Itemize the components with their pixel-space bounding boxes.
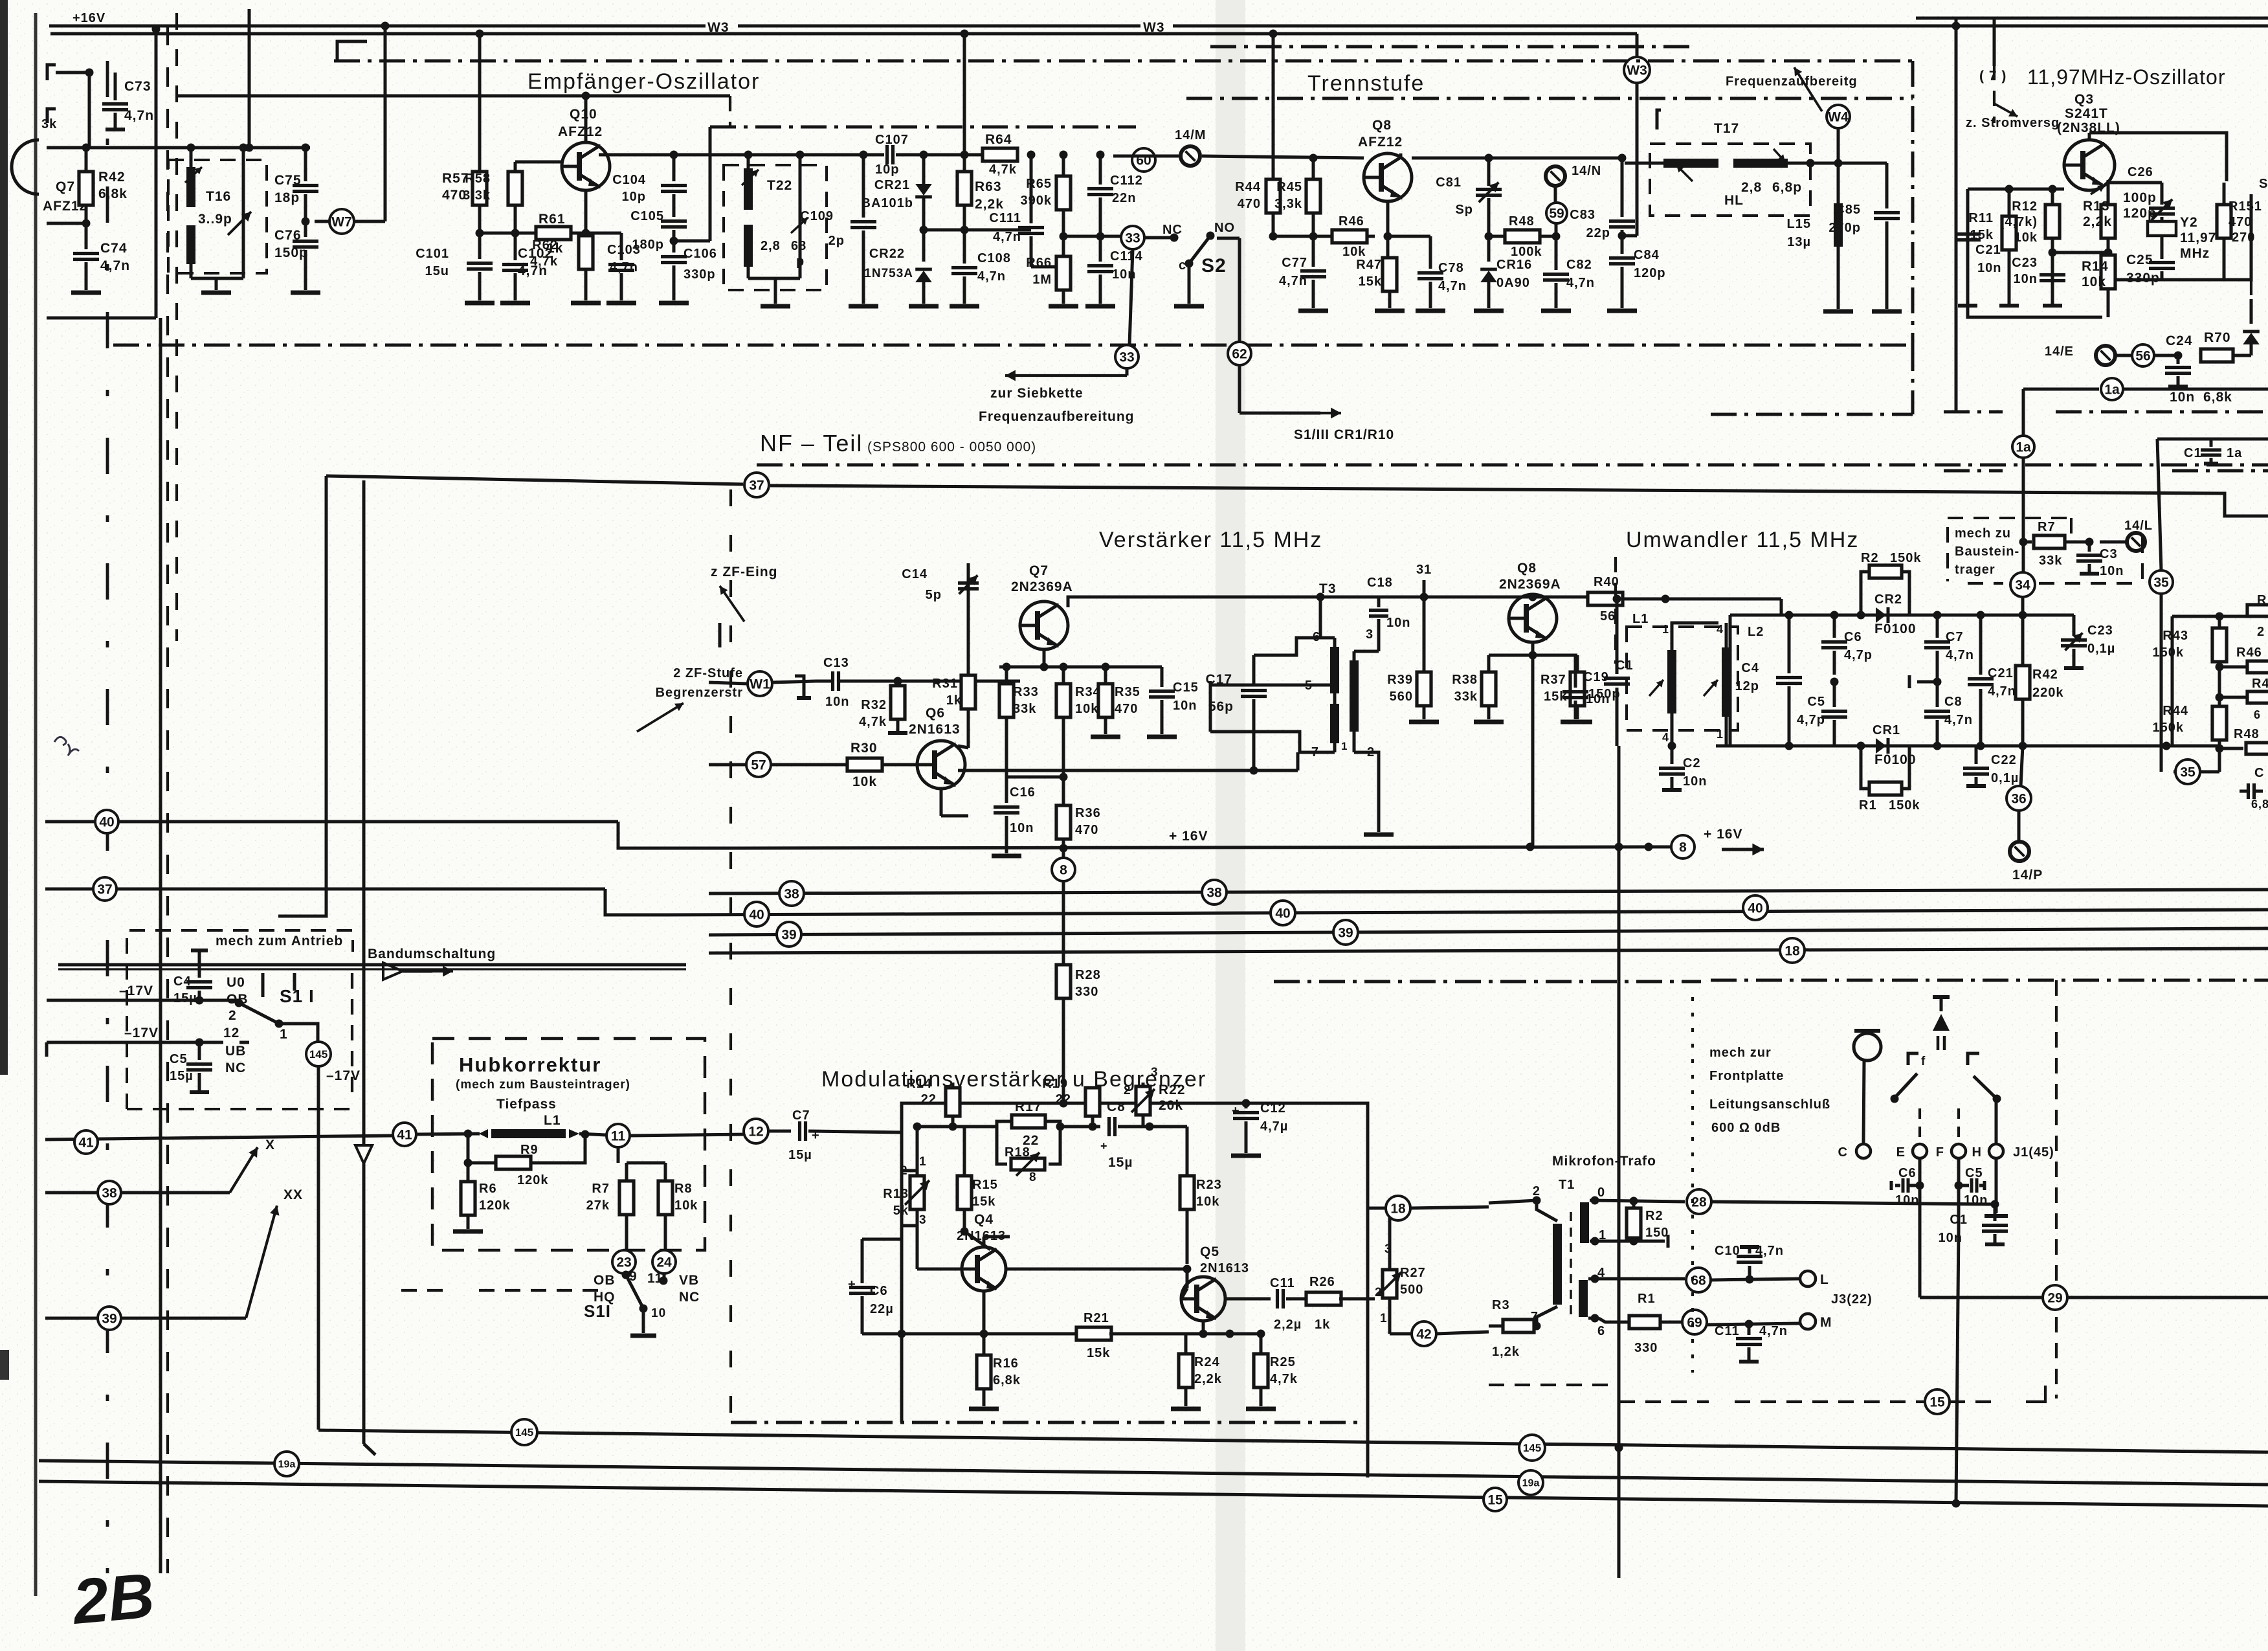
svg-text:12p: 12p [1735, 679, 1759, 693]
wire bus37 left [45, 888, 605, 891]
resistor R1u loop [1861, 746, 1869, 789]
wire T17 hook [1657, 110, 1661, 129]
arrow zf-eing [720, 586, 744, 622]
svg-text:C16: C16 [1010, 785, 1036, 800]
trim arrow T16 top [185, 167, 202, 183]
svg-text:1k: 1k [1315, 1318, 1330, 1332]
svg-text:C26: C26 [2128, 165, 2153, 179]
capacitor C5u [1833, 682, 1836, 707]
node 19a right [1518, 1470, 1543, 1495]
svg-text:2: 2 [2257, 625, 2265, 639]
resistor R11 [2008, 189, 2011, 216]
capacitor C12 [1245, 1103, 1248, 1108]
node 37 left [93, 877, 117, 901]
resistor R45 [1312, 158, 1315, 180]
svg-text:R65: R65 [1026, 177, 1052, 191]
svg-text:22p: 22p [1586, 226, 1610, 240]
svg-text:10p: 10p [622, 190, 646, 204]
capacitor C81 trimmer [1487, 158, 1491, 186]
svg-text:C76: C76 [274, 228, 302, 243]
svg-text:–17V: –17V [326, 1068, 361, 1083]
junction [1830, 678, 1839, 686]
svg-text:35: 35 [2153, 575, 2169, 590]
resistor R33 [1005, 667, 1008, 684]
svg-text:2N1613: 2N1613 [909, 722, 961, 737]
svg-text:R18: R18 [1005, 1145, 1030, 1160]
svg-text:R32: R32 [861, 698, 887, 712]
svg-text:R47: R47 [1356, 258, 1382, 272]
svg-text:4,7n: 4,7n [100, 258, 130, 273]
inductor T17 winding right [1733, 159, 1788, 168]
svg-text:R151: R151 [2229, 199, 2262, 214]
svg-text:1: 1 [919, 1155, 927, 1169]
wire H drop [1995, 1099, 1998, 1144]
svg-text:1a: 1a [2227, 446, 2242, 460]
wire T16 right lead [242, 148, 245, 278]
svg-text:6: 6 [2254, 708, 2261, 721]
resistor R62 vert [584, 190, 588, 233]
capacitor C6f [1890, 1181, 1893, 1190]
svg-text:18: 18 [1784, 943, 1800, 958]
svg-text:18p: 18p [274, 190, 300, 205]
svg-text:10k: 10k [674, 1198, 698, 1213]
wire C17 top [1254, 638, 1335, 655]
wire C6-Q4 link [862, 1332, 984, 1336]
resistor R19 [1091, 1088, 1095, 1103]
svg-text:S1I: S1I [584, 1301, 611, 1321]
wire Q4 collector [983, 1237, 986, 1247]
svg-text:41: 41 [78, 1135, 94, 1150]
resistor R44t [1266, 179, 1280, 213]
svg-text:2N2369A: 2N2369A [1499, 577, 1561, 592]
wire 28 out [1711, 1202, 1995, 1204]
wire 1a row [2023, 388, 2099, 391]
svg-text:10n: 10n [2170, 390, 2195, 405]
svg-text:145: 145 [1523, 1442, 1541, 1454]
svg-text:1: 1 [280, 1027, 288, 1042]
trim arrow T22 top [742, 170, 759, 185]
svg-text:L: L [1820, 1272, 1829, 1287]
wire R7R8 bracket [617, 1147, 620, 1163]
svg-text:470: 470 [1115, 702, 1138, 716]
diode CR16 [1487, 236, 1491, 262]
speaker symbol [1933, 995, 1950, 999]
wire C14 vertical [967, 563, 970, 675]
svg-text:R2: R2 [1645, 1209, 1663, 1223]
svg-text:C15: C15 [1173, 680, 1199, 695]
node W4 [1827, 105, 1850, 128]
svg-text:C8: C8 [1944, 695, 1962, 709]
svg-text:33k: 33k [1454, 690, 1478, 704]
svg-text:R28: R28 [1075, 968, 1101, 982]
wire R46 row [1273, 235, 1375, 238]
svg-text:Frequenzaufbereitg: Frequenzaufbereitg [1726, 74, 1858, 89]
capacitor C3 [2088, 542, 2091, 552]
svg-text:R7: R7 [2038, 520, 2056, 534]
node 68 [1686, 1268, 1711, 1292]
svg-text:R13: R13 [883, 1187, 909, 1201]
junction [670, 151, 678, 159]
svg-text:Tiefpass: Tiefpass [496, 1097, 557, 1112]
svg-text:VB: VB [679, 1273, 699, 1288]
svg-text:C74: C74 [100, 241, 128, 256]
svg-text:R14: R14 [906, 1077, 932, 1091]
svg-text:C10: C10 [1715, 1244, 1740, 1258]
resistor R57 [478, 34, 482, 172]
svg-text:22µ: 22µ [870, 1302, 894, 1316]
svg-text:4,7n: 4,7n [1944, 713, 1973, 727]
wire T1 in top [1489, 1200, 1537, 1203]
node 60 [1132, 148, 1155, 172]
wire Q7 row [47, 146, 310, 150]
connector L out [1800, 1271, 1816, 1286]
capacitor C11m [1748, 1324, 1751, 1335]
wire C105 tap [674, 240, 710, 243]
wire Q8 emitter long [1531, 642, 1535, 846]
resistor R13 [2107, 192, 2110, 205]
svg-text:470: 470 [1238, 197, 1261, 211]
resistor R7k [2023, 541, 2032, 544]
box mech zu Bausteintraeger [1948, 518, 2071, 581]
wire mod row1 [917, 1125, 997, 1129]
svg-text:2,8: 2,8 [1741, 180, 1762, 195]
svg-text:C82: C82 [1566, 258, 1592, 272]
wire umw top rail [1780, 599, 1783, 615]
svg-text:R61: R61 [539, 212, 566, 227]
svg-text:23: 23 [616, 1255, 631, 1270]
wire 69 out [1707, 1323, 1799, 1325]
resistor R35 [1104, 667, 1107, 684]
svg-text:R26: R26 [1309, 1275, 1335, 1289]
wire 62 down [1238, 366, 1241, 413]
resistor R61 [536, 227, 571, 240]
svg-text:R48: R48 [2234, 727, 2260, 741]
svg-text:C109: C109 [800, 209, 834, 223]
svg-text:C73: C73 [124, 79, 151, 94]
capacitor C114 [1099, 236, 1102, 262]
svg-text:Hubkorrektur: Hubkorrektur [459, 1053, 601, 1076]
arrow stromversg [1994, 104, 2018, 117]
svg-text:100k: 100k [1511, 245, 1542, 259]
svg-text:C104: C104 [612, 173, 646, 187]
wire pin6 row [1588, 1317, 1599, 1320]
svg-text:100p: 100p [2123, 190, 2157, 205]
node 62 [1228, 342, 1251, 365]
svg-text:15µ: 15µ [788, 1148, 812, 1162]
inductor T3 winding upper [1330, 647, 1339, 693]
wire Q8 emitter [1386, 201, 1390, 260]
wire S2 pole [1188, 264, 1191, 304]
svg-text:15k: 15k [1970, 228, 1994, 242]
svg-text:35: 35 [2180, 765, 2196, 780]
svg-text:8: 8 [1679, 840, 1687, 855]
resistor R46 stub [2219, 666, 2246, 669]
transistor Q5 [1181, 1277, 1225, 1321]
wire W4 vertical [1837, 128, 1840, 163]
inductor T22 winding lower [744, 225, 753, 267]
wire C111 join [1031, 265, 1063, 269]
svg-text:L1: L1 [1632, 612, 1649, 626]
svg-text:1: 1 [1380, 1312, 1388, 1325]
border left dashed vertical 2 [166, 26, 169, 1573]
svg-text:Empfänger-Oszillator: Empfänger-Oszillator [528, 69, 760, 94]
transistor Q3 [2064, 140, 2115, 190]
box mech zum Antrieb [127, 930, 353, 1109]
svg-text:12: 12 [223, 1026, 239, 1040]
junction [949, 1099, 957, 1108]
svg-text:390k: 390k [1021, 194, 1052, 208]
svg-text:C5: C5 [170, 1052, 188, 1066]
capacitor C4s [198, 950, 201, 978]
svg-text:1a: 1a [2104, 382, 2120, 397]
svg-text:38: 38 [1206, 885, 1222, 900]
capacitor C76 [304, 221, 307, 237]
arrow freq [1794, 67, 1822, 111]
svg-text:C101: C101 [416, 247, 449, 261]
svg-text:C114: C114 [1110, 249, 1143, 264]
svg-text:R14: R14 [2082, 259, 2109, 274]
wire R61 row [480, 232, 586, 235]
pot R22 [1142, 1083, 1145, 1085]
wire 1a vertical [2022, 389, 2025, 435]
node 41 mid [393, 1123, 416, 1146]
junction [1485, 232, 1493, 241]
svg-text:11,97MHz-Oszillator: 11,97MHz-Oszillator [2027, 65, 2225, 89]
inductor T16 winding upper [186, 167, 195, 207]
svg-text:C6: C6 [1898, 1166, 1917, 1180]
capacitor series right edge [2247, 783, 2250, 799]
svg-text:R11: R11 [1968, 211, 1994, 225]
wire L1 bottom [1671, 725, 1674, 746]
svg-text:0: 0 [1597, 1185, 1605, 1200]
svg-text:3: 3 [919, 1213, 927, 1227]
capacitor C1u [1616, 599, 1619, 674]
svg-text:R7: R7 [592, 1182, 610, 1196]
svg-text:4,7n: 4,7n [977, 269, 1006, 284]
junction [2216, 663, 2224, 671]
svg-text:C7: C7 [1946, 630, 1964, 644]
svg-text:XX: XX [283, 1187, 303, 1202]
svg-text:Q4: Q4 [974, 1212, 994, 1227]
svg-text:41: 41 [397, 1127, 412, 1142]
wire 57 left [709, 763, 746, 767]
wire band lines [58, 963, 686, 967]
resistor R8 [658, 1181, 673, 1215]
capacitor C6u [1833, 615, 1836, 638]
svg-text:1,2k: 1,2k [1492, 1345, 1520, 1359]
svg-text:R1: R1 [1638, 1292, 1656, 1306]
wire Q6 collector link [958, 746, 968, 748]
svg-text:R23: R23 [1196, 1178, 1222, 1192]
border NF dash right [1711, 979, 2268, 982]
capacitor C19 [1575, 654, 1577, 657]
svg-text:38: 38 [784, 886, 799, 901]
capacitor C11 series [1276, 1289, 1279, 1308]
svg-text:C11: C11 [1715, 1324, 1740, 1338]
node 39 b [1333, 920, 1358, 945]
border dash right a [1944, 410, 2003, 414]
border upper block bottom [113, 344, 1913, 347]
svg-text:AFZ12: AFZ12 [1358, 135, 1403, 150]
node 18 mod [1386, 1196, 1410, 1220]
capacitor C104 [673, 155, 676, 181]
svg-text:4,7k: 4,7k [530, 254, 558, 269]
svg-text:J1(45): J1(45) [2013, 1145, 2054, 1160]
wire osc vertical 2 [1993, 18, 1996, 66]
resistor R28 [1056, 965, 1071, 998]
wire 24 stub [663, 1274, 666, 1281]
svg-text:150p: 150p [1588, 687, 1621, 701]
svg-text:R70: R70 [2204, 330, 2231, 345]
svg-text:z. Stromversg: z. Stromversg [1966, 116, 2060, 130]
svg-text:NC: NC [679, 1290, 700, 1305]
wire C78 link [1388, 235, 1430, 238]
wire stub x385 [248, 9, 251, 148]
svg-text:C108: C108 [977, 251, 1011, 265]
wire 56 row [2116, 354, 2132, 357]
svg-text:3,3k: 3,3k [1274, 197, 1302, 211]
wire 19a bus [39, 1461, 2268, 1485]
svg-text:T16: T16 [206, 189, 231, 204]
border left dash-dot vertical [106, 61, 109, 1573]
svg-text:C5: C5 [1965, 1166, 1983, 1180]
capacitor C73 [114, 73, 117, 100]
diode CR2 [1861, 614, 1876, 617]
trimmer arrow T16 [228, 212, 251, 235]
svg-text:145: 145 [515, 1426, 533, 1439]
svg-text:C: C [1838, 1145, 1848, 1160]
resistor R58 [514, 162, 517, 172]
node 11 [606, 1124, 630, 1147]
svg-text:15µ: 15µ [173, 991, 197, 1005]
junction [1618, 232, 1627, 240]
wire 37 left corner [278, 476, 326, 916]
svg-text:19a: 19a [278, 1459, 296, 1470]
junction [1933, 678, 1942, 686]
svg-text:E: E [1896, 1145, 1906, 1160]
svg-text:10n: 10n [1964, 1193, 1988, 1207]
svg-text:2N2369A: 2N2369A [1011, 579, 1073, 594]
connector C jack [1856, 1144, 1871, 1158]
wire L1 top [1672, 623, 1718, 638]
wire 12 stub [239, 1041, 249, 1044]
svg-text:C6: C6 [1844, 630, 1862, 644]
border frontplatte left [1691, 997, 1694, 1373]
svg-text:R44: R44 [1235, 180, 1261, 194]
resistor R39 [1423, 597, 1426, 672]
svg-text:C12: C12 [1260, 1101, 1286, 1116]
svg-text:2 ZF-Stufe: 2 ZF-Stufe [673, 666, 743, 680]
svg-text:U0: U0 [227, 975, 245, 990]
resistor R21 [984, 1332, 1078, 1336]
wire R63 vertical top [963, 34, 966, 155]
svg-text:C83: C83 [1570, 208, 1595, 222]
resistor R7h [619, 1181, 634, 1215]
svg-text:CR21: CR21 [874, 178, 910, 192]
svg-text:R42: R42 [2032, 668, 2058, 682]
svg-text:330: 330 [1075, 985, 1098, 999]
wire 35b link [2173, 770, 2175, 774]
svg-text:56: 56 [1600, 609, 1616, 623]
border mikrofon bottom [1489, 1384, 1619, 1386]
svg-text:150k: 150k [2153, 646, 2185, 660]
svg-text:120p: 120p [1634, 266, 1666, 280]
svg-text:2,2k: 2,2k [1194, 1372, 1222, 1386]
capacitor C17 [1252, 655, 1256, 686]
svg-text:0,1µ: 0,1µ [1991, 771, 2019, 785]
svg-text:C78: C78 [1438, 261, 1464, 275]
resistor R24 [1184, 1334, 1188, 1354]
node 1a lower [2012, 436, 2034, 458]
wire osc top [2088, 133, 2091, 140]
wire top-right short rail [1916, 17, 2268, 20]
svg-text:UB: UB [225, 1044, 246, 1059]
svg-text:180p: 180p [632, 238, 664, 252]
svg-text:6,8k: 6,8k [993, 1373, 1021, 1387]
junction [2216, 693, 2224, 702]
svg-text:Sp: Sp [1455, 203, 1473, 217]
svg-text:1: 1 [1662, 623, 1669, 636]
svg-text:(4,7k): (4,7k) [2000, 215, 2038, 229]
wire Q6 emitter down [940, 789, 943, 816]
svg-text:Q7: Q7 [1029, 563, 1049, 578]
svg-text:1a: 1a [2016, 440, 2031, 455]
svg-text:19a: 19a [1522, 1478, 1540, 1489]
svg-text:Q7: Q7 [56, 179, 75, 194]
wire Q7 emitter rail [1043, 649, 1046, 667]
svg-text:40: 40 [99, 814, 114, 829]
node 33 upper [1121, 226, 1144, 249]
svg-text:R42: R42 [98, 170, 126, 185]
wire R12-R13 link [2052, 251, 2108, 254]
resistor R30 [771, 763, 847, 767]
wire umw bottom rail [1716, 745, 2219, 748]
wire T3 leads [1333, 638, 1337, 647]
resistor R15 [963, 1127, 966, 1176]
svg-text:15µ: 15µ [170, 1069, 194, 1083]
wire 37 bus [326, 476, 743, 484]
diode CR21 [922, 155, 926, 184]
wire T22 right lead [799, 155, 802, 278]
svg-text:AFZ12: AFZ12 [558, 124, 603, 139]
capacitor C112 [1099, 155, 1102, 185]
svg-text:(mech zum Bausteintrager): (mech zum Bausteintrager) [456, 1078, 630, 1092]
border dash right b [1944, 469, 2003, 473]
wire S1I out [279, 1024, 318, 1042]
svg-text:10n: 10n [825, 695, 849, 709]
resistor R9 loop [468, 1134, 496, 1163]
svg-text:Baustein-: Baustein- [1955, 545, 2019, 559]
svg-text:R3: R3 [1492, 1298, 1510, 1312]
capacitor C21o [1966, 189, 1970, 230]
capacitor C1a [2210, 439, 2213, 447]
svg-text:C107: C107 [875, 133, 909, 147]
svg-text:4,7µ: 4,7µ [1260, 1119, 1288, 1134]
svg-text:R45: R45 [1276, 180, 1302, 194]
resistor R42u [2021, 615, 2025, 666]
svg-text:56p: 56p [1208, 699, 1234, 714]
diode CR1 [1861, 745, 1876, 748]
svg-text:C4: C4 [1741, 661, 1759, 675]
svg-text:29: 29 [2047, 1290, 2062, 1305]
border upper block right [1911, 61, 1915, 345]
svg-text:24: 24 [656, 1255, 672, 1270]
svg-text:f: f [1921, 1055, 1926, 1068]
wire pin0 row [1590, 1200, 1685, 1202]
svg-text:39: 39 [781, 927, 796, 942]
svg-text:13µ: 13µ [1787, 235, 1811, 249]
svg-text:2,2k: 2,2k [2083, 214, 2112, 229]
